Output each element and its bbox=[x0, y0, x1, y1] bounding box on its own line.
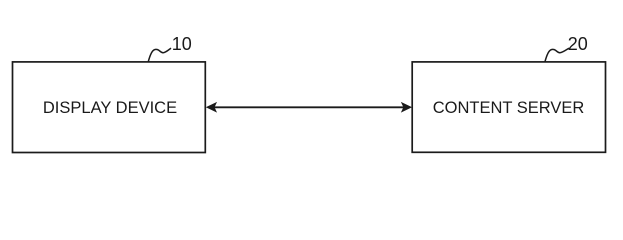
bidirectional arrow shaft bbox=[209, 106, 409, 108]
leader line to 10 bbox=[148, 48, 171, 62]
svg-text:20: 20 bbox=[568, 34, 588, 54]
svg-text:CONTENT SERVER: CONTENT SERVER bbox=[433, 99, 585, 117]
svg-text:DISPLAY DEVICE: DISPLAY DEVICE bbox=[43, 99, 177, 117]
left arrowhead bbox=[207, 103, 216, 112]
right arrowhead bbox=[402, 103, 411, 112]
box: content server bbox=[412, 62, 605, 152]
leader line to 20 bbox=[545, 48, 569, 62]
svg-text:10: 10 bbox=[172, 34, 192, 54]
box: display device bbox=[13, 62, 206, 153]
